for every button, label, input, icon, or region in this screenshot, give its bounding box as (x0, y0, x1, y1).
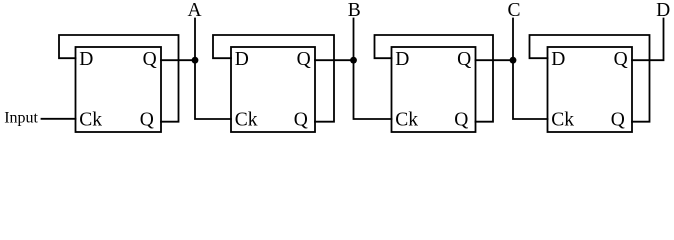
svg-text:Q: Q (140, 110, 154, 131)
svg-text:Q: Q (457, 49, 471, 70)
wire: node B up to label B (353, 19, 355, 61)
flip-flop U3 box (392, 47, 476, 132)
svg-text:Ck: Ck (235, 110, 258, 131)
svg-text:D: D (395, 49, 409, 70)
svg-text:Q: Q (611, 110, 625, 131)
svg-text:Q: Q (614, 49, 628, 70)
svg-text:D: D (79, 49, 93, 70)
svg-text:Q: Q (454, 110, 468, 131)
wire: node C up to label C (512, 19, 514, 61)
node B junction dot (350, 57, 357, 64)
svg-text:Q: Q (294, 110, 308, 131)
wire: U2 Qbar feedback loop to U2 D (213, 35, 334, 122)
svg-text:D: D (656, 0, 670, 21)
svg-text:Ck: Ck (395, 110, 418, 131)
svg-text:Q: Q (297, 49, 311, 70)
svg-text:Ck: Ck (79, 110, 102, 131)
wire: U3 Q output to node C (476, 59, 514, 61)
svg-text:A: A (188, 0, 202, 21)
flip-flop U1 box (76, 47, 162, 132)
wire: node A down to U2 Ck (195, 60, 231, 119)
wire: U4 Qbar feedback loop to U4 D (530, 35, 650, 122)
wire: node B down to U3 Ck (354, 60, 392, 119)
svg-text:C: C (507, 0, 520, 21)
flip-flop U2 box (231, 47, 315, 132)
svg-text:D: D (235, 49, 249, 70)
wire: node A up to label A (194, 19, 196, 61)
svg-text:Ck: Ck (551, 110, 574, 131)
svg-text:Input: Input (4, 110, 38, 127)
svg-text:B: B (348, 0, 361, 21)
wire: U1 Q output to node A (161, 59, 195, 61)
wire: U2 Q output to node B (315, 59, 354, 61)
node C junction dot (510, 57, 517, 64)
wire: U4 Q output to label D line (632, 19, 664, 61)
wire: U3 Qbar feedback loop to U3 D (375, 35, 494, 122)
flip-flop U4 box (548, 47, 633, 132)
node A junction dot (192, 57, 199, 64)
wire: U1 Qbar feedback loop to U1 D (59, 35, 179, 122)
svg-text:Q: Q (143, 49, 157, 70)
wire: Input to U1 Ck (42, 118, 76, 120)
wire: node C down to U4 Ck (513, 60, 548, 119)
svg-text:D: D (551, 49, 565, 70)
